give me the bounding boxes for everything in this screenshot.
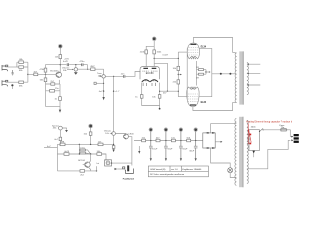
secondary taps (247, 64, 260, 85)
transistor Q2 (85, 162, 90, 167)
resistor R7 (51, 83, 55, 85)
left rail (56, 144, 58, 171)
bias column (178, 52, 186, 97)
wire A (60, 64, 87, 66)
node (45, 74, 46, 75)
svg-text:FootSwitch: FootSwitch (123, 178, 135, 181)
wire pot to Q3 (115, 133, 126, 136)
svg-text:1R: 1R (196, 67, 199, 69)
cathode squiggle (191, 56, 197, 59)
plug pins (288, 137, 291, 141)
capacitor C1 (67, 63, 83, 66)
pot P2 tone (103, 69, 105, 75)
PT primary winding right (247, 120, 248, 183)
resistor R3 68k (19, 81, 24, 84)
pedal pot box (102, 153, 106, 155)
svg-text:Kagbberen 19Hd00: Kagbberen 19Hd00 (182, 168, 202, 171)
selector common output (253, 150, 255, 157)
resistor R27 (171, 139, 175, 142)
resistor R23 (98, 143, 103, 146)
resistor R4 (34, 73, 38, 76)
cathode squiggle (190, 87, 196, 90)
tube V1 ECC83 envelope (140, 67, 160, 80)
collector wire (59, 65, 61, 73)
ground arrow (102, 97, 104, 100)
PT secondary winding left (235, 119, 237, 186)
OT primary winding (235, 53, 237, 103)
plate bars (143, 67, 156, 69)
plate bar (190, 104, 196, 106)
diode arrows top (206, 132, 209, 134)
node plate2 (154, 58, 155, 59)
terminal square (94, 82, 96, 84)
arrow terminal (138, 146, 140, 151)
node (27, 74, 28, 75)
resistor R20 (59, 137, 62, 140)
supply terminal (59, 45, 62, 48)
bottom rail (57, 170, 96, 172)
diode arrows bottom (206, 147, 209, 149)
row A (57, 143, 113, 145)
jack J1 (input 1) (2, 65, 8, 71)
resistor R17 (177, 80, 180, 84)
svg-text:BC184: BC184 (78, 160, 85, 162)
resistor R19 (199, 73, 204, 75)
resistor R28 (187, 139, 191, 142)
DC right wire (215, 141, 221, 143)
ground arrow (59, 110, 61, 113)
node arrow (178, 74, 179, 75)
wire (24, 67, 28, 82)
resistor R11 (91, 68, 95, 71)
svg-text:pc900: pc900 (128, 134, 135, 136)
svg-text:EL34: EL34 (201, 46, 207, 49)
node to vibrato (113, 76, 114, 77)
svg-text:0.047: 0.047 (163, 54, 169, 56)
svg-text:Int: Int (97, 162, 100, 165)
grids dashed (188, 48, 198, 56)
ground arrow (112, 149, 114, 152)
bus (134, 140, 203, 142)
svg-text:GDW tweed (B): GDW tweed (B) (150, 168, 166, 171)
transistor Q1 BC184 (56, 72, 61, 77)
AC bottom wire down to lamp (211, 148, 231, 168)
resistor R6 (45, 74, 47, 90)
footswitch bus (112, 162, 132, 164)
neutral wire (247, 140, 288, 169)
collector down (128, 137, 132, 166)
svg-text:30uF: 30uF (189, 150, 195, 152)
resistor R22 (60, 143, 65, 146)
supply terminal (153, 37, 156, 40)
ground (11, 70, 14, 75)
cap column 2 (164, 128, 168, 161)
live wire to fuse (263, 130, 290, 137)
svg-text:EL34: EL34 (201, 101, 207, 104)
plate bar (190, 43, 196, 45)
resistor R26 (156, 139, 160, 142)
grid wire (178, 51, 187, 53)
resistor R16 (177, 66, 180, 70)
resistor R13 100k (153, 50, 156, 54)
emitter RC loop (46, 80, 61, 91)
red annotation (246, 121, 292, 145)
screen bus wire (186, 49, 188, 99)
cap column 1 (149, 128, 153, 161)
jack J2 (input 2) (2, 80, 8, 86)
wire (8, 81, 19, 83)
cathode resistors (142, 83, 160, 106)
node collector (60, 64, 61, 65)
pot P4 speed (59, 126, 63, 130)
svg-text:ECC83: ECC83 (146, 72, 154, 75)
capacitor C2 22n (124, 75, 125, 78)
wire C (105, 72, 140, 77)
wire B (78, 68, 104, 70)
bridge square (203, 133, 215, 148)
PT core (239, 117, 243, 187)
phase shift loop (79, 144, 90, 154)
svg-text:470n: 470n (80, 61, 86, 63)
pot P3 vibrato (112, 132, 116, 136)
cap column 3 (179, 128, 183, 161)
fuse (281, 129, 286, 131)
OT secondary winding (247, 63, 249, 95)
svg-text:16uF: 16uF (182, 148, 188, 150)
plate wire to OT (193, 102, 237, 110)
cathode arcs (142, 80, 150, 82)
svg-text:Heating Element throug capacit: Heating Element throug capacitor ? repla… (246, 121, 292, 124)
wire loop top (17, 62, 28, 67)
row B (57, 154, 106, 161)
cap column 4 (194, 128, 198, 161)
resistor R18 (199, 69, 204, 71)
svg-text:4u25: 4u25 (64, 151, 70, 153)
svg-text:C10a: C10a (80, 148, 86, 150)
svg-text:1M: 1M (98, 75, 101, 77)
svg-text:+15V: +15V (64, 58, 70, 60)
B+ centre tap wire (212, 73, 237, 75)
AC top wire (211, 124, 237, 133)
svg-text:DIY links: www.diyaudio.com/f: DIY links: www.diyaudio.com/forum (150, 173, 184, 176)
ground (74, 72, 78, 74)
resistor R10 10k (59, 55, 62, 59)
resistor R25 (142, 139, 146, 142)
resistor R5 470k (46, 65, 61, 75)
mid network (197, 61, 207, 86)
svg-text:4u7F: 4u7F (63, 61, 69, 63)
capacitor box Ca (80, 149, 86, 151)
cathode wire to bias column (160, 90, 179, 92)
resistor R8 (50, 90, 55, 93)
resistor R14 (140, 95, 143, 99)
grids dashed (188, 94, 199, 102)
svg-text:BC184C: BC184C (50, 70, 59, 72)
resistor R9 (59, 97, 62, 101)
svg-text:16uF: 16uF (152, 148, 158, 150)
wire (28, 73, 56, 75)
wire to output grid top (154, 57, 178, 59)
resistor R2 68k (19, 66, 24, 69)
resistor R12 220k (145, 50, 148, 54)
pot P1 volume (75, 64, 76, 65)
plate wire to OT (193, 38, 236, 53)
resistor R24 (97, 153, 102, 156)
resistor R1 68k (19, 61, 24, 64)
wire (17, 66, 28, 68)
OT core (239, 51, 243, 104)
footswitch jack (123, 165, 134, 173)
tube V3 EL34 bottom envelope (flipped) (187, 87, 199, 107)
resistor R29 (64, 153, 69, 156)
jack2 sleeve dot (11, 84, 13, 86)
transistor Q3 (124, 134, 129, 139)
wires plate supply (146, 41, 154, 67)
svg-text:1R: 1R (196, 77, 199, 79)
coupling loop right of tube (154, 63, 167, 91)
grids dashed (142, 70, 157, 72)
supply terminal osc (89, 125, 92, 128)
wire (59, 48, 61, 65)
pins (143, 83, 155, 86)
resistor R30 (80, 170, 85, 173)
wire (8, 66, 17, 68)
switch lever (260, 128, 264, 131)
resistor R15 (158, 95, 161, 99)
svg-text:16uF: 16uF (167, 148, 173, 150)
screen/cathode wire right (199, 48, 212, 96)
svg-text:rev 1.0: rev 1.0 (171, 168, 178, 171)
resistor R21 (89, 132, 92, 135)
node arrow (205, 71, 206, 72)
capacitor box Cb (80, 152, 86, 154)
emitter box wires (46, 91, 61, 110)
pilot lamp (228, 168, 237, 178)
tube V2 EL34 top envelope (187, 43, 199, 59)
mains connector (294, 134, 299, 136)
wire 4n7 (44, 147, 57, 149)
selector box (249, 130, 260, 151)
